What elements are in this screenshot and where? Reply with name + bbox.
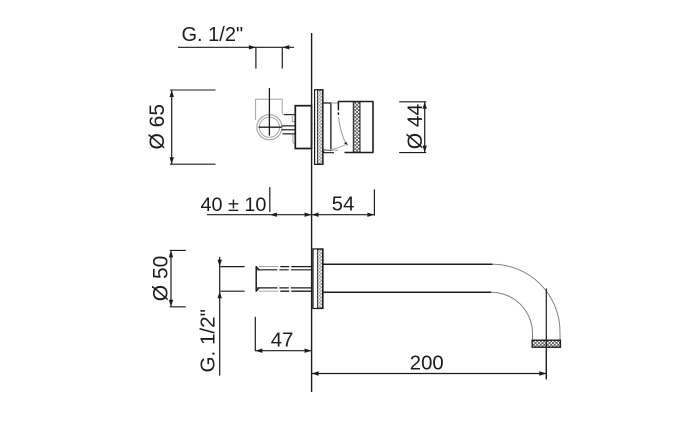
dimension G 1/2 top: right extension tick	[281, 47, 283, 68]
dimension G 1/2 top: line	[178, 46, 294, 48]
hub vertical centerline	[268, 88, 270, 136]
dimension 47: arrow left-pointing	[255, 349, 262, 353]
dimension 200: arrow right-pointing	[539, 371, 546, 375]
lever centerline dot	[337, 112, 339, 115]
flange base step	[324, 150, 334, 153]
handle hub outer circle	[257, 115, 282, 140]
svg-text:Ø 50: Ø 50	[149, 256, 172, 302]
dimension G 1/2 bottom: arrow up outside	[218, 291, 222, 298]
svg-text:G. 1/2": G. 1/2"	[182, 24, 244, 46]
dimension D65: top extension line	[170, 89, 216, 91]
threaded tail OD top dashes	[280, 266, 311, 268]
adapter sleeve	[323, 103, 331, 150]
dimension 47: line	[255, 350, 311, 352]
dimension 47: left extension line	[254, 317, 256, 351]
spout inner bend	[491, 292, 532, 340]
dimension D44: bottom extension line	[399, 152, 426, 154]
dimension G 1/2 top: left extension tick	[255, 47, 257, 68]
dimension D65: vertical line	[171, 90, 173, 164]
hub horizontal centerline	[259, 126, 282, 128]
dimension 54: right extension tick	[373, 189, 375, 215]
dimension D65: bottom extension line	[170, 163, 216, 165]
svg-text:200: 200	[410, 353, 444, 375]
valve stem upper line	[282, 125, 296, 127]
valve upper notch gray	[292, 115, 295, 122]
adapter to knob gray top line	[331, 102, 338, 104]
escutcheon flange top: outline	[315, 90, 323, 165]
valve body outline gray	[256, 99, 285, 120]
dimension D50: vertical line	[170, 250, 172, 306]
valve mounting block	[295, 106, 311, 149]
spout flange: outline	[313, 249, 323, 309]
spout tube top line	[323, 263, 493, 265]
dimension G 1/2 top: arrow right-pointing	[249, 45, 256, 49]
adapter to knob gray bottom line	[331, 149, 338, 151]
wall line	[311, 33, 313, 392]
dimension 200: right extension line	[545, 350, 547, 380]
arrow at tick 40 left-pointing	[270, 213, 277, 217]
pipe end chamfer top	[256, 267, 259, 270]
outlet center extension line	[545, 289, 547, 380]
knurled ring hatched	[353, 102, 360, 153]
arrow at wall right-pointing	[305, 213, 312, 217]
svg-text:47: 47	[271, 329, 294, 351]
dimension D50: arrow down	[169, 300, 173, 307]
dimension 40+-10: center extension tick	[269, 187, 271, 212]
knob right edge	[372, 102, 374, 153]
dimension 200: arrow left-pointing	[312, 371, 319, 375]
dimension D50: arrow up	[169, 250, 173, 257]
threaded tail OD bottom gray	[259, 290, 279, 292]
dimension 40+-10 and 54: shared line	[207, 214, 374, 216]
escutcheon flange top: hatched section	[317, 90, 322, 164]
svg-text:40 ± 10: 40 ± 10	[201, 194, 267, 216]
knob top edge	[338, 101, 374, 103]
dimension G 1/2 bottom: vertical line	[219, 257, 221, 376]
handle hub inner circle	[259, 117, 279, 137]
svg-text:Ø 44: Ø 44	[404, 103, 427, 149]
valve body lower-right gray step	[293, 134, 295, 144]
arrow at tick 54 right-pointing	[367, 213, 374, 217]
lever swing arrowhead	[344, 142, 348, 146]
svg-text:Ø 65: Ø 65	[146, 104, 169, 150]
threaded tail root bottom	[257, 287, 311, 289]
dimension 47: arrow right-pointing	[305, 349, 312, 353]
pipe end chamfer bottom	[256, 288, 259, 291]
svg-text:54: 54	[332, 193, 355, 215]
knob left edge partial	[337, 102, 339, 111]
valve stem base line	[283, 133, 296, 135]
dimension G 1/2 bottom: bottom extension stub	[221, 290, 245, 292]
arrow at wall left-pointing	[312, 213, 319, 217]
spout tube bottom line	[323, 291, 491, 293]
threaded tail root top	[257, 269, 311, 271]
dimension D65: arrow up	[170, 90, 174, 97]
spout outer bend	[493, 264, 561, 340]
dimension D44: top extension line	[399, 101, 426, 103]
dimension 200: line	[312, 373, 547, 375]
lever swing line	[339, 117, 346, 143]
svg-text:G. 1/2": G. 1/2"	[196, 309, 219, 372]
pipe end cap line	[255, 266, 257, 292]
valve body step dark line	[284, 114, 295, 116]
aerator end hatched	[532, 340, 560, 347]
threaded tail OD top gray	[259, 266, 279, 268]
dimension G 1/2 top: arrow left-pointing	[282, 45, 289, 49]
dimension G 1/2 bottom: top extension stub	[221, 266, 245, 268]
dimension D65: arrow down	[170, 157, 174, 164]
dimension D44: arrow down	[423, 146, 427, 153]
dimension D44: vertical line	[424, 102, 426, 153]
lever swing arc	[324, 144, 347, 150]
dimension G 1/2 bottom: arrow down outside	[218, 260, 222, 267]
valve stem lower line	[282, 129, 296, 131]
dimension D50: bottom extension line	[170, 306, 186, 308]
dimension D50: top extension line	[170, 249, 186, 251]
spout flange: hatched section	[317, 249, 322, 308]
threaded tail OD bottom dashes	[280, 290, 311, 292]
knob bottom edge	[345, 152, 374, 154]
dimension D44: arrow up	[423, 102, 427, 109]
